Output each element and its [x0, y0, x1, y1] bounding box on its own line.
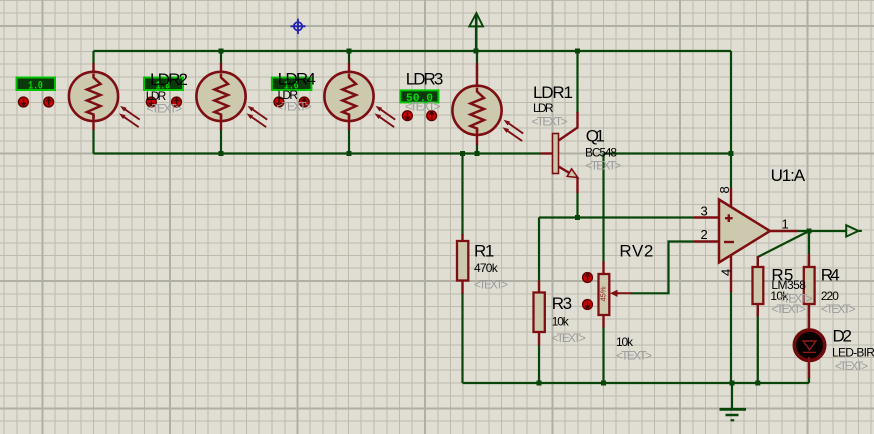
svg-text:<TEXT>: <TEXT>	[821, 302, 856, 316]
svg-text:R3: R3	[552, 294, 572, 313]
svg-text:LDR1: LDR1	[533, 83, 573, 102]
LED D2 LED-BIRY	[794, 328, 824, 378]
svg-text:470k: 470k	[474, 261, 499, 275]
node base row LDR4	[475, 151, 480, 156]
svg-text:D2: D2	[833, 326, 853, 345]
button LDR2 down	[146, 97, 156, 107]
wire bottom ground rail	[463, 382, 810, 384]
svg-text:10k: 10k	[616, 335, 634, 349]
button group3 down	[274, 97, 284, 107]
svg-text:45%: 45%	[598, 286, 607, 301]
svg-text:LDR3: LDR3	[406, 70, 444, 89]
wire power stem	[475, 14, 478, 51]
svg-text:LDR: LDR	[533, 101, 554, 115]
svg-text:<TEXT>: <TEXT>	[147, 101, 183, 115]
ground	[720, 409, 747, 420]
svg-text:RV2: RV2	[619, 242, 653, 261]
display LDR3(group4) value 50.0	[400, 90, 438, 104]
wire collector drop	[576, 51, 578, 113]
svg-text:<TEXT>: <TEXT>	[276, 100, 312, 114]
LDR photoresistor (circle 1)	[69, 63, 140, 130]
resistor R1 470k	[457, 234, 468, 294]
node top rail power	[474, 49, 479, 54]
svg-text:U1:A: U1:A	[771, 166, 806, 185]
LDR photoresistor (circle 4)	[452, 63, 523, 145]
svg-text:<TEXT>: <TEXT>	[771, 302, 806, 316]
svg-text:4: 4	[719, 269, 734, 276]
node top rail LDR2	[219, 49, 224, 54]
wire RV2 bottom	[602, 327, 604, 384]
wire LDR2 top drop	[220, 51, 222, 64]
wire R3 top	[538, 218, 540, 282]
node top rail collector	[575, 49, 580, 54]
button group3 up	[299, 97, 309, 107]
display LDR1 value 1.0	[17, 78, 56, 93]
wire LDR2 bottom drop	[220, 129, 222, 154]
svg-text:2: 2	[701, 227, 708, 242]
wire ground stem	[731, 383, 733, 409]
wire R5 bottom	[757, 316, 759, 384]
origin marker	[291, 19, 306, 34]
wire pin4 down	[730, 291, 732, 383]
svg-text:LDR4: LDR4	[278, 69, 316, 88]
wire feedback diagonal to R5	[758, 231, 809, 257]
wire base row	[94, 152, 541, 154]
potentiometer RV2 10k	[598, 262, 631, 328]
wire VCC right branch	[604, 51, 732, 188]
wire output	[798, 230, 862, 232]
wire R1 bottom	[461, 293, 463, 383]
svg-text:LDR2: LDR2	[150, 70, 188, 89]
node emitter junction	[575, 215, 580, 220]
wire pin2 to wiper	[630, 242, 694, 294]
node VCC corner right	[729, 151, 734, 156]
wire LDR3 top drop	[348, 51, 350, 64]
svg-text:<TEXT>: <TEXT>	[405, 99, 441, 113]
wire LDR1 top drop	[92, 51, 94, 64]
svg-text:R4: R4	[821, 266, 840, 285]
node base row LDR3	[347, 151, 352, 156]
svg-text:<TEXT>: <TEXT>	[586, 159, 622, 173]
node rail R5	[755, 381, 760, 386]
svg-text:<TEXT>: <TEXT>	[835, 359, 868, 373]
svg-text:<TEXT>: <TEXT>	[474, 277, 508, 291]
wire emitter drop	[576, 192, 578, 218]
svg-text:8: 8	[717, 186, 732, 193]
svg-text:1: 1	[782, 217, 789, 232]
svg-text:Q1: Q1	[586, 127, 605, 146]
node rail R3	[537, 381, 542, 386]
button LDR1 down	[19, 97, 29, 107]
svg-text:LED-BIRY: LED-BIRY	[832, 346, 874, 360]
LDR photoresistor (circle 3)	[324, 63, 395, 130]
svg-text:BC548: BC548	[585, 146, 617, 160]
node base row R1	[460, 151, 465, 156]
wire LDR1 bottom drop	[92, 129, 94, 154]
node rail gnd	[730, 381, 735, 386]
svg-text:<TEXT>: <TEXT>	[552, 331, 586, 345]
output arrow	[846, 225, 858, 236]
svg-text:<TEXT>: <TEXT>	[532, 115, 568, 129]
button LDR1 up	[44, 97, 54, 107]
wire LDR4 top drop	[476, 51, 478, 78]
wire R1 top	[461, 154, 463, 236]
op-amp U1:A LM358	[694, 188, 798, 292]
node rail RV2	[601, 381, 606, 386]
wire LDR4 bottom drop	[476, 144, 478, 154]
display LDR2 value 1.0	[144, 78, 183, 93]
display LDR4(group3) value 1.0	[272, 78, 312, 93]
button group4 down	[403, 111, 413, 121]
LDR photoresistor (circle 2)	[196, 63, 267, 130]
button group4 up	[427, 111, 437, 121]
resistor R5 10k	[753, 256, 764, 317]
wire top VCC rail	[94, 50, 732, 52]
wire R4 top	[808, 231, 810, 254]
wire R3 bottom	[538, 345, 540, 384]
svg-text:220: 220	[821, 289, 839, 303]
resistor R4 220	[804, 254, 815, 331]
resistor R3 10k	[534, 281, 545, 346]
transistor Q1 BC548	[541, 112, 578, 193]
wire RV2 top feed	[602, 154, 604, 263]
node base row LDR2	[219, 151, 224, 156]
node top rail LDR3	[347, 49, 352, 54]
wire D2 bottom	[808, 377, 810, 383]
svg-text:R1: R1	[474, 242, 494, 261]
wire LDR3 bottom drop	[348, 129, 350, 154]
power arrow VCC	[469, 13, 483, 26]
svg-text:<TEXT>: <TEXT>	[616, 348, 652, 362]
button LDR2 up	[172, 97, 182, 107]
svg-text:10k: 10k	[552, 314, 570, 328]
node output pin1	[807, 229, 812, 234]
svg-text:3: 3	[701, 204, 708, 219]
button RV2 down	[583, 300, 593, 310]
svg-text:1.0: 1.0	[28, 80, 43, 92]
button RV2 up	[583, 273, 593, 283]
wire emitter row to pin3	[539, 216, 694, 218]
